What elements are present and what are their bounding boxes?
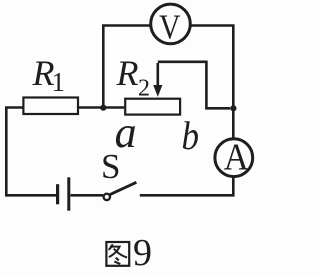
wire between R1 and R2 xyxy=(79,106,124,109)
battery long plate positive xyxy=(67,177,70,210)
wire from wiper over to right rail xyxy=(158,62,230,109)
label S xyxy=(101,147,120,186)
svg-text:9: 9 xyxy=(133,232,152,274)
svg-text:2: 2 xyxy=(138,76,150,102)
label R2 xyxy=(116,53,151,102)
wire top-left vertical from node to voltmeter branch xyxy=(103,26,150,109)
label R1 xyxy=(32,53,66,97)
ammeter A1 circle xyxy=(215,139,253,177)
svg-text:A: A xyxy=(224,136,249,178)
svg-text:b: b xyxy=(182,113,200,158)
battery short plate negative xyxy=(56,184,59,204)
wire from voltmeter right to right rail down to ammeter xyxy=(190,26,233,138)
rheostat wiper arrow xyxy=(153,63,162,97)
terminal label a xyxy=(115,108,137,157)
wire from ammeter bottom to bottom-right corner and left to switch xyxy=(140,177,234,196)
svg-text:S: S xyxy=(101,147,120,186)
rheostat R2 box xyxy=(125,99,180,115)
terminal label b xyxy=(182,113,200,158)
switch S pivot circle xyxy=(104,194,110,200)
resistor R1 box xyxy=(23,98,78,115)
svg-text:1: 1 xyxy=(52,67,66,97)
caption character tu (figure) drawn as strokes xyxy=(106,242,129,266)
switch S lever xyxy=(110,182,137,194)
caption number 9 xyxy=(133,232,152,274)
ammeter label A xyxy=(224,136,249,178)
svg-text:V: V xyxy=(159,8,181,47)
node junction dot left xyxy=(100,105,106,111)
voltmeter label V xyxy=(159,8,181,47)
svg-text:R: R xyxy=(116,53,139,93)
wire battery to switch pivot xyxy=(71,194,104,197)
node junction dot right xyxy=(230,105,236,111)
voltmeter U1 circle xyxy=(151,4,191,44)
wire left rail and bottom-left run xyxy=(6,108,56,196)
